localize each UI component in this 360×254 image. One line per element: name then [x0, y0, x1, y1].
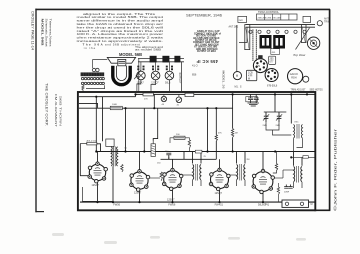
- svg-text:as model 56B: as model 56B: [135, 49, 162, 52]
- wire riser x291.3: [290, 94, 292, 123]
- svg-text:FW451: FW451: [215, 203, 224, 207]
- small socket circle A: [233, 72, 241, 80]
- IF can top view 1: [260, 35, 272, 49]
- wire riser x154.3: [153, 94, 155, 108]
- svg-text:12SQ7: 12SQ7: [215, 192, 223, 195]
- tube V3 12SQ7: [162, 168, 183, 201]
- label ANT TRIM: [324, 18, 330, 24]
- svg-text:THE CROSLEY CORP.: THE CROSLEY CORP.: [45, 83, 49, 126]
- svg-text:SEPTEMBER, 1946: SEPTEMBER, 1946: [186, 14, 222, 18]
- wire tube T3 ground: [172, 188, 174, 202]
- socket pin pads: [137, 66, 139, 68]
- tube V5 50L6GT: [252, 169, 275, 206]
- wire box above coil: [106, 139, 114, 146]
- svg-text:MODEL 56B: MODEL 56B: [41, 19, 45, 47]
- svg-text:2M: 2M: [247, 159, 250, 161]
- wire stub V4 to IFT2: [228, 174, 236, 176]
- resistor above V5: [273, 152, 278, 174]
- svg-text:1M: 1M: [235, 133, 238, 135]
- svg-text:RGH: RGH: [291, 76, 297, 79]
- tube V1 12SA7: [88, 162, 108, 187]
- wire trimmer drops: [266, 122, 291, 135]
- svg-text:50L6: 50L6: [165, 81, 171, 84]
- svg-text:40: 40: [177, 105, 180, 107]
- svg-text:SEE NOTES: SEE NOTES: [310, 90, 324, 92]
- schematic frame: [78, 92, 315, 210]
- svg-text:05: 05: [125, 148, 128, 150]
- wire riser x216.3 upper: [215, 108, 217, 135]
- cap pair mid left: [166, 153, 171, 159]
- label box 2E5: [269, 56, 276, 64]
- stem above socket B: [258, 55, 262, 59]
- wire riser x232.6: [232, 94, 234, 128]
- transformer core hatch: [81, 72, 105, 76]
- wire tube T1 ground: [97, 181, 99, 202]
- svg-text:44: 44: [162, 104, 165, 106]
- resistor zigzag below transformer: [82, 85, 84, 91]
- switch box SW: [185, 93, 194, 96]
- svg-text:TRIM-CONTROL: TRIM-CONTROL: [258, 10, 280, 14]
- wire tube T2 riser: [139, 152, 141, 173]
- wire W3 step: [79, 103, 98, 108]
- socket strip rail: [138, 58, 184, 60]
- svg-text:H: H: [236, 74, 239, 78]
- svg-text:Schematic,Socket: Schematic,Socket: [45, 19, 49, 47]
- trimmer label box right: [303, 16, 311, 22]
- resistor R-line box on W1: [143, 93, 153, 96]
- svg-text:12SA7: 12SA7: [92, 184, 100, 187]
- trimmer label box left: [238, 16, 247, 22]
- tube V4 12SQ7: [209, 168, 230, 195]
- IF can blob 3: [174, 56, 180, 63]
- wire W4: [79, 107, 233, 109]
- gang capacitor plates (edge view): [253, 30, 257, 62]
- chassis left flange: [245, 25, 250, 50]
- svg-text:FM ALIGNMENT: FM ALIGNMENT: [54, 94, 58, 127]
- svg-text:270: 270: [144, 98, 148, 100]
- wire left margin riser: [80, 175, 96, 177]
- svg-text:Trimmers,Notes: Trimmers,Notes: [48, 19, 52, 48]
- socket circle B (12SA7 top): [253, 59, 267, 73]
- trimmer screws row: [249, 30, 306, 33]
- wire tube T5 riser: [262, 152, 264, 172]
- notes paragraph (scan-blur body text): [77, 12, 165, 50]
- wire riser x207.5: [207, 108, 209, 151]
- wire W1 heater top: [136, 93, 315, 95]
- osc coil T-osc upper right: [294, 124, 303, 152]
- socket circle S3: [165, 62, 174, 84]
- svg-text:Top View: Top View: [293, 53, 306, 57]
- page left border rule: [35, 9, 37, 213]
- wire x184 drop: [183, 152, 185, 160]
- speaker cone: [107, 57, 135, 63]
- speaker magnet (U): [113, 66, 130, 85]
- resistor 100K on W4: [110, 106, 122, 109]
- chassis rear bar: [246, 24, 315, 26]
- wire mid partial: [161, 158, 217, 160]
- title block MODEL 56B Schematic,Socket Trimmers,Notes (vertical): [41, 19, 53, 48]
- svg-text:2M5: 2M5: [263, 125, 268, 127]
- socket pin pads: [166, 66, 168, 68]
- wire bottom-left return: [83, 187, 114, 201]
- resistor vertical mid: [215, 135, 217, 141]
- resistor vertical left of V2: [121, 164, 123, 172]
- speaker plug circle: [288, 69, 303, 84]
- wire riser x232.6 lower: [232, 137, 234, 151]
- resistor AVC box: [87, 142, 97, 145]
- idler pulley: [317, 21, 322, 26]
- svg-text:OSC: OSC: [294, 122, 299, 124]
- svg-text:M: M: [248, 78, 250, 81]
- resistor hatched right of V5: [277, 187, 279, 195]
- svg-text:in the: in the: [84, 46, 96, 50]
- svg-text:M: M: [311, 203, 313, 206]
- svg-text:T41: T41: [265, 203, 270, 207]
- resistor horizontal 200: [174, 134, 185, 139]
- hum-bucking coil OO: [92, 68, 95, 71]
- svg-text:47K: 47K: [218, 133, 222, 135]
- svg-text:20MF: 20MF: [284, 191, 290, 193]
- electrolytic caps 20MF: [284, 185, 293, 189]
- wire under transformer: [86, 85, 105, 88]
- svg-text:TRIM ADJUST: TRIM ADJUST: [291, 88, 307, 91]
- wire riser x102.5: [102, 97, 104, 142]
- wire tube T3 riser: [172, 159, 174, 170]
- svg-text:100K: 100K: [112, 104, 118, 106]
- svg-text:2M5 2M6 2M1 OSC AN: 2M5 2M6 2M1 OSC AN: [258, 17, 281, 20]
- svg-text:25: 25: [204, 156, 207, 158]
- wire chassis to socket H: [236, 25, 238, 72]
- svg-text:AOLD 150: AOLD 150: [87, 139, 98, 142]
- svg-text:ANT 2M2: ANT 2M2: [229, 26, 239, 29]
- svg-text:12SK7: 12SK7: [134, 192, 142, 195]
- wire osc coil bottom: [112, 166, 114, 202]
- svg-text:FW56: FW56: [168, 203, 175, 207]
- ground hatch under caps: [248, 103, 260, 106]
- label under IF cans: [271, 49, 280, 55]
- svg-text:©John F. Rider, Publisher: ©John F. Rider, Publisher: [334, 127, 338, 211]
- wire tube T2 ground: [139, 189, 141, 202]
- transformer secondary winding row: [81, 82, 104, 84]
- wire W2: [79, 96, 136, 98]
- wire riser x157.7: [153, 108, 158, 140]
- wire tube T1 riser: [97, 152, 99, 165]
- svg-text:CROSLEY PAGE 11-14: CROSLEY PAGE 11-14: [31, 11, 35, 50]
- outer page border right: [329, 9, 331, 210]
- svg-text:MODEL 56B: MODEL 56B: [119, 52, 142, 57]
- dial pointer diagonal: [134, 70, 141, 79]
- IF can top view 2: [273, 35, 285, 49]
- wire riser x216.3 lower: [215, 141, 217, 159]
- svg-text:MODEL..56: MODEL..56: [222, 71, 226, 89]
- label box 1CB: [246, 70, 256, 80]
- wire trimmer rail: [264, 111, 287, 113]
- terminal strip box: [282, 200, 309, 207]
- wire speaker top loop: [93, 60, 108, 68]
- dial lamp P2: [176, 97, 182, 103]
- svg-text:150: 150: [157, 163, 161, 165]
- page top border rule: [35, 8, 330, 10]
- wire tube T5 ground: [262, 192, 264, 203]
- svg-text:2E5: 2E5: [270, 58, 275, 60]
- output transformer on speaker: [118, 59, 126, 65]
- tube V2 12SK7: [130, 170, 150, 195]
- wire AVC: [80, 143, 87, 145]
- svg-text:6T6-50L6: 6T6-50L6: [267, 84, 278, 87]
- small circle right: [303, 76, 309, 82]
- svg-text:M1 . S: M1 . S: [235, 86, 242, 89]
- wire stub V2 to IFT1: [148, 177, 160, 179]
- svg-text:455 KC IF: 455 KC IF: [196, 59, 218, 64]
- wire tube T4 riser: [219, 159, 221, 170]
- IF transformer T1: [193, 164, 202, 186]
- wire ground bus: [80, 201, 315, 203]
- page border foot: [35, 211, 44, 213]
- wire chassis hook: [239, 27, 247, 42]
- wire osc coil top: [96, 144, 100, 152]
- svg-text:2M6: 2M6: [276, 125, 281, 127]
- wire IFT1 drops: [192, 152, 194, 164]
- trimmer cap 2M6: [276, 112, 282, 122]
- socket circle C: [265, 69, 278, 82]
- svg-text:56B THORN: 56B THORN: [59, 96, 63, 126]
- trimmer label row: [257, 14, 298, 20]
- socket pin pads: [152, 66, 154, 68]
- transformer primary winding row: [81, 77, 104, 79]
- wire bus B+: [96, 151, 314, 153]
- svg-text:856: 856: [192, 73, 197, 77]
- wire left inner drop: [79, 144, 81, 176]
- wire riser x125.5: [125, 108, 127, 151]
- socket circle S2: [151, 62, 160, 84]
- notes paragraph right column rows: [135, 46, 164, 52]
- svg-text:OUTPUT AT MAX: OUTPUT AT MAX: [197, 50, 216, 53]
- wire stub V5 to OT: [273, 177, 283, 179]
- filter can box: [246, 97, 258, 102]
- voice coil gap: [117, 66, 127, 81]
- IF can blob 2: [162, 56, 169, 63]
- wire riser x275: [274, 94, 276, 112]
- wire riser x135.5: [135, 94, 137, 96]
- resistor vertical left of V3: [160, 172, 162, 181]
- resistor 470 box right: [303, 156, 308, 159]
- wires near 200: [170, 138, 189, 152]
- pilot lamp P1: [161, 96, 166, 101]
- IF can blob 1: [150, 56, 157, 63]
- misc value labels: [125, 122, 300, 165]
- svg-text:41 O: 41 O: [192, 64, 198, 68]
- dial cord diagonal: [296, 28, 310, 50]
- resistor 1MEG vertical: [231, 129, 233, 138]
- wire stub V3 to IFT1: [181, 174, 193, 176]
- svg-text:FW56: FW56: [113, 203, 120, 207]
- resistor box 150K on bus: [195, 150, 202, 153]
- socket circle S1: [137, 62, 146, 84]
- wire caps drop: [168, 157, 170, 160]
- svg-text:BATTERY: BATTERY: [178, 73, 181, 84]
- wire speaker right drop: [138, 58, 140, 91]
- dial drum circle: [307, 37, 319, 49]
- electrolytic cap pair to ground: [248, 94, 259, 103]
- svg-text:12S: 12S: [256, 66, 261, 68]
- svg-text:12SQ7: 12SQ7: [167, 199, 175, 202]
- wire riser x96: [95, 97, 97, 152]
- chassis right flange: [302, 25, 307, 43]
- wire battery column: [181, 62, 183, 91]
- wire OT drops: [293, 152, 295, 166]
- wire IFT2 drops: [236, 152, 238, 164]
- trimmer cap 2M5: [263, 112, 269, 122]
- output transformer T3: [294, 166, 303, 188]
- IF transformer T2: [237, 164, 246, 186]
- wire tube T4 ground: [219, 189, 221, 203]
- bottom border extension: [314, 209, 330, 211]
- zigzag resistor below 200: [188, 140, 190, 149]
- socket drop wires: [137, 80, 141, 91]
- wire riser x144.3: [143, 108, 145, 151]
- resistor hatched mid-left: [151, 141, 155, 157]
